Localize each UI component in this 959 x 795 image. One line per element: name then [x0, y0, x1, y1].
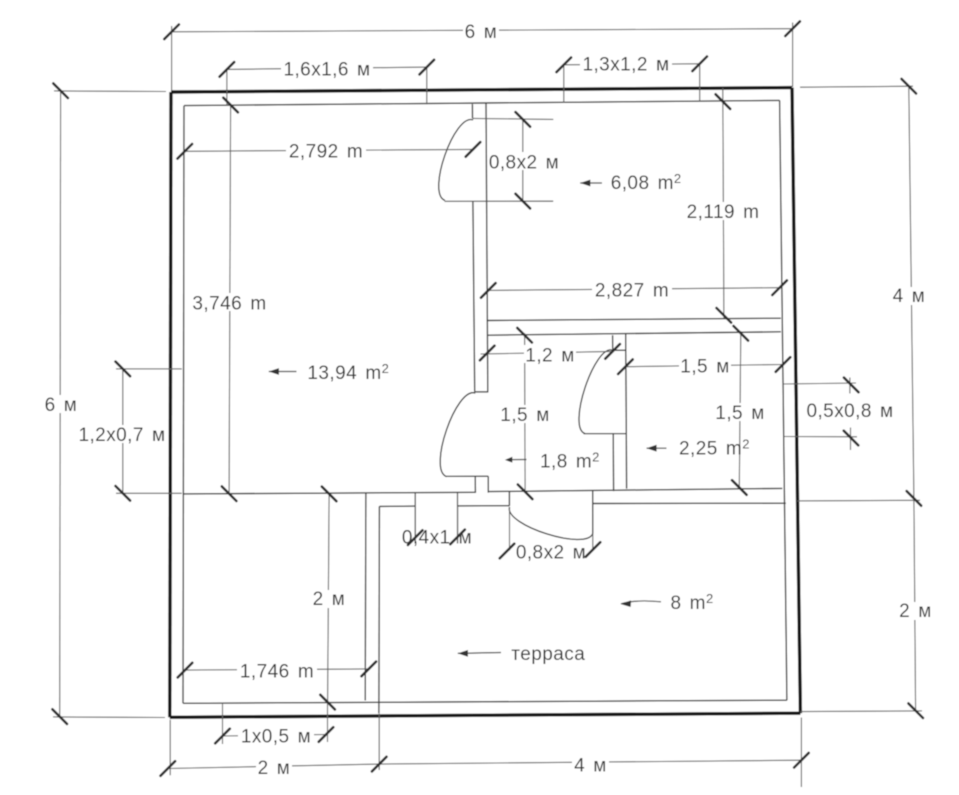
ticks 0.4x1: [408, 530, 465, 545]
dim 2m bottom line: [168, 764, 379, 768]
inner face bottom: [183, 700, 787, 703]
label 8m2: [671, 591, 714, 614]
door C closing line: [446, 475, 489, 477]
label 13.94 m2: [307, 361, 389, 384]
arrow 1.8: [505, 457, 527, 463]
door D arc (1.8 to 2.25 room): [579, 350, 613, 434]
svg-text:0,8x2 м: 0,8x2 м: [489, 153, 559, 174]
dim 2m right line: [914, 498, 916, 711]
partition small-rooms top face: [487, 332, 781, 335]
partition 6.08 bottom face: [487, 318, 781, 320]
svg-text:6,08 m2: 6,08 m2: [611, 171, 682, 194]
ticks 6m top: [164, 21, 800, 39]
label 1.746: [237, 661, 317, 683]
main room bottom line: [184, 492, 476, 494]
svg-text:1x0,5 м: 1x0,5 м: [241, 727, 311, 748]
terrace top face west: [379, 505, 415, 507]
label 2m bottom: [256, 758, 292, 779]
label 2.792: [286, 141, 366, 163]
dim 1.3x1.2 line: [564, 64, 700, 65]
label 4m right: [891, 286, 927, 307]
svg-text:2 м: 2 м: [899, 601, 932, 622]
door D closing line: [584, 433, 626, 435]
dim 6m left line: [59, 91, 62, 717]
inner face left: [183, 106, 184, 704]
partition 1.8/2.25 left face: [612, 335, 614, 350]
svg-text:0,4x1 м: 0,4x1 м: [402, 528, 472, 549]
svg-text:6 м: 6 м: [465, 22, 498, 43]
dim 0.4x1 ext: [415, 506, 457, 544]
svg-text:1,8 m2: 1,8 m2: [540, 449, 600, 472]
door C top jamb: [475, 391, 488, 393]
svg-text:2,119 m: 2,119 m: [687, 202, 760, 223]
svg-text:3,746 m: 3,746 m: [192, 294, 266, 315]
ticks 3.746: [222, 98, 238, 501]
svg-text:4 м: 4 м: [893, 286, 926, 307]
svg-text:1,2 м: 1,2 м: [525, 346, 574, 367]
arrow 8m2: [621, 600, 662, 607]
dim 0.5x0.8 ext top: [783, 383, 856, 384]
door A closing line + extension: [445, 200, 554, 202]
door D top jamb: [613, 349, 626, 351]
dim 1.5m vert 2.25room line: [739, 331, 741, 487]
ticks 1.2m: [480, 344, 620, 360]
dim 4m right line: [909, 86, 914, 498]
dim 3.746 line: [229, 104, 231, 494]
svg-text:2,827 m: 2,827 m: [595, 280, 669, 301]
label 1.2m: [524, 345, 576, 367]
ticks 2m Lroom: [320, 487, 336, 710]
ticks 6m left: [52, 83, 68, 724]
ticks 1.746: [178, 662, 376, 678]
svg-text:2 м: 2 м: [313, 589, 346, 610]
dim 0.8x2 top line: [522, 119, 524, 201]
dim 2m Lroom line: [328, 494, 330, 702]
label 1.5m vert 2.25: [714, 403, 766, 424]
label 2.827: [592, 280, 672, 301]
partition main/6.08 left face upper stub: [471, 104, 473, 118]
dim 1.6x1.6 line: [227, 67, 427, 69]
label 0.5x0.8: [806, 401, 895, 422]
dim 4m bottom ext right: [800, 718, 802, 788]
outer wall left: [170, 92, 171, 717]
window 0.4x1 jamb right: [457, 493, 459, 544]
label 1.5m 1.8room: [499, 405, 551, 426]
partition 1.8/2.25 right face: [625, 334, 628, 489]
svg-text:0,5x0,8 м: 0,5x0,8 м: [806, 401, 893, 422]
dim 1.3x1.2 ext: [564, 64, 700, 103]
outer wall bottom: [170, 713, 801, 717]
ticks 0.5x0.8: [844, 378, 859, 446]
tick 4m/2m mid: [907, 491, 922, 506]
label 1.2x0.7: [78, 425, 167, 446]
ticks 0.8x2 top: [516, 112, 531, 208]
svg-text:терраса: терраса: [511, 644, 585, 665]
door B arc (terrace door): [509, 507, 592, 539]
inner face top: [184, 100, 780, 105]
dim 1.2m line: [481, 351, 613, 354]
door B leaf line: [592, 491, 594, 534]
label 2.119: [686, 202, 761, 223]
label 1.5m horiz 2.25: [679, 356, 731, 378]
partition 1.8/2.25 left face lower: [612, 434, 614, 492]
tick 4m bottom right: [794, 753, 809, 768]
partition right face x=486: [486, 103, 488, 392]
label 1.8m2: [540, 449, 600, 472]
label 4m bottom: [572, 756, 609, 777]
label 1x0.5: [238, 727, 314, 748]
ticks 1.5m horiz 2.25room: [618, 357, 790, 374]
dim 1.6x1.6 ext: [227, 67, 427, 105]
door C arc (main to 1.8 room): [440, 393, 475, 477]
terrace wall east face: [378, 506, 381, 713]
dim 2.827 line: [488, 288, 779, 291]
tick 2m right bottom: [908, 703, 923, 718]
svg-text:13,94 m2: 13,94 m2: [307, 361, 389, 384]
svg-text:0,8x2 м: 0,8x2 м: [516, 543, 586, 564]
door B jamb left: [508, 491, 510, 506]
outer wall top: [171, 88, 792, 92]
partition main left face lower: [474, 476, 476, 492]
svg-text:2,792 m: 2,792 m: [289, 142, 363, 163]
dim 0.5x0.8 ext bottom: [784, 436, 857, 438]
dim 6m top line: [172, 29, 793, 32]
ticks 1x0.5: [215, 727, 333, 743]
ticks 1.5m vert 1.8room: [517, 328, 532, 499]
svg-text:1,3x1,2 м: 1,3x1,2 м: [582, 55, 669, 76]
svg-text:1,2x0,7 м: 1,2x0,7 м: [78, 425, 165, 446]
dim 0.8x2 bottom ext stubs: [510, 508, 593, 551]
small rooms bottom face: [488, 488, 782, 491]
dim 4m/2m mid ext: [798, 499, 921, 502]
dim 2.792 line: [185, 149, 473, 151]
ticks 0.8x2 bottom: [500, 542, 601, 558]
terrace wall west face: [364, 493, 367, 701]
ticks 1.2x0.7: [116, 362, 131, 501]
label 2m Lroom: [311, 589, 347, 610]
dim 1x0.5 ext: [223, 702, 328, 744]
dim 1x0.5 line: [223, 735, 327, 737]
dim 2m right ext bottom: [801, 710, 923, 713]
svg-text:4 м: 4 м: [574, 756, 607, 777]
outer wall right: [792, 88, 800, 714]
svg-text:1,5 м: 1,5 м: [715, 403, 764, 424]
label 3.746: [190, 293, 269, 315]
label 2.25m2: [679, 437, 750, 460]
svg-text:1,746 m: 1,746 m: [240, 662, 314, 683]
label 0.8x2 bottom: [516, 543, 586, 564]
label 6m left: [43, 395, 79, 416]
dim 1.2x0.7 ext: [116, 369, 182, 493]
dim 4m right ext top: [800, 86, 913, 87]
dim 2.119 line: [723, 88, 724, 318]
inner face right: [780, 100, 787, 700]
svg-text:1,5 м: 1,5 м: [500, 405, 549, 426]
ticks 2.827: [481, 280, 787, 297]
label terrace: [511, 644, 585, 665]
ticks 2.119: [716, 94, 732, 322]
arrow 2.25: [647, 445, 667, 452]
dim 6m top ext left: [172, 23, 793, 92]
label 6m top: [463, 22, 499, 43]
dim 2m bottom ext: [170, 714, 379, 776]
terrace top face mid: [458, 505, 510, 507]
partition main/6.08 left face mid: [473, 201, 475, 392]
label 1.3x1.2: [580, 54, 672, 76]
dim 0.5x0.8 tick stubs: [849, 378, 852, 451]
label 0.8x2 top: [489, 152, 559, 174]
dim 1.5m vert 1.8room line: [524, 333, 527, 490]
partition right face x=488 lower: [487, 476, 489, 492]
tick 4m right top: [902, 79, 917, 94]
window 0.4x1 jamb left: [414, 493, 416, 544]
dim 1.746 line: [185, 669, 369, 670]
terrace top face east: [593, 502, 786, 504]
svg-text:1,6x1,6 м: 1,6x1,6 м: [283, 60, 370, 81]
svg-text:2 м: 2 м: [258, 758, 291, 779]
label 6.08 m2: [611, 171, 682, 194]
svg-text:1,5 м: 1,5 м: [680, 357, 729, 378]
label 2m right: [897, 601, 933, 622]
svg-text:2,25 m2: 2,25 m2: [679, 437, 750, 460]
dim 1.2x0.7 line: [122, 369, 124, 493]
dim 1.5m horiz 2.25room line: [625, 365, 783, 367]
ticks 1.5m vert 2.25room: [732, 326, 748, 495]
label 0.4x1: [402, 528, 472, 549]
label 1.6x1.6: [281, 59, 373, 81]
ticks 1.3x1.2: [557, 57, 708, 73]
ticks 2m bottom: [161, 757, 387, 776]
dim 0.8x2 top ext: [473, 118, 554, 119]
dim 4m bottom line: [379, 760, 801, 764]
arrow 13.94: [269, 368, 297, 375]
dim 6m left ext: [53, 91, 166, 718]
arrow terrace: [458, 650, 501, 657]
arrow 6.08: [580, 180, 602, 187]
svg-text:6 м: 6 м: [45, 395, 78, 416]
door A arc (main to 6.08 room): [439, 120, 473, 201]
ticks 2.792: [178, 142, 481, 159]
ticks 1.6x1.6: [220, 60, 435, 77]
